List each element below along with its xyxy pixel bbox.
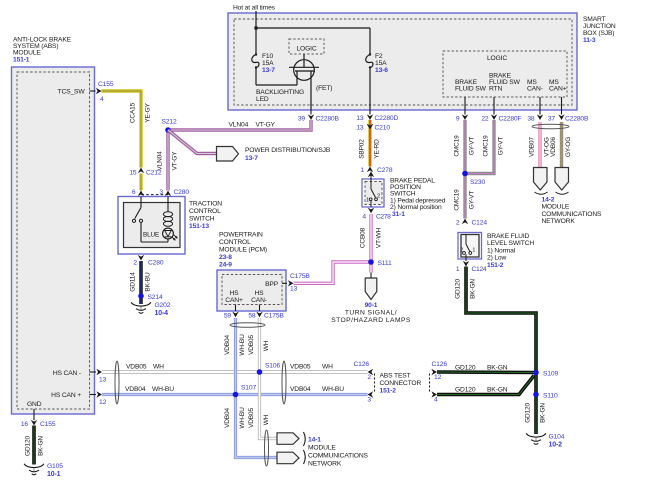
svg-text:COMMUNICATIONS: COMMUNICATIONS (308, 453, 369, 460)
svg-text:BRAKE FLUID: BRAKE FLUID (487, 233, 530, 240)
svg-text:GD120: GD120 (455, 279, 462, 299)
svg-text:GY-VT: GY-VT (469, 137, 476, 156)
svg-text:GD114: GD114 (130, 272, 137, 292)
svg-text:C124: C124 (472, 220, 488, 227)
svg-text:C155: C155 (40, 421, 56, 428)
svg-text:13: 13 (356, 125, 364, 132)
svg-text:S214: S214 (148, 294, 163, 301)
svg-text:GY-OG: GY-OG (565, 137, 572, 157)
svg-text:C175B: C175B (264, 313, 284, 320)
svg-text:2: 2 (460, 248, 463, 254)
svg-text:CONNECTOR: CONNECTOR (380, 380, 422, 387)
svg-text:151-2: 151-2 (380, 388, 397, 395)
svg-text:SBP02: SBP02 (359, 139, 366, 159)
svg-text:F2: F2 (375, 53, 383, 60)
svg-text:VT-GY: VT-GY (256, 121, 276, 128)
svg-text:G202: G202 (155, 302, 171, 309)
svg-text:13: 13 (290, 286, 298, 293)
svg-text:VT-WH: VT-WH (376, 227, 383, 248)
svg-text:JUNCTION: JUNCTION (583, 23, 616, 30)
svg-text:LED: LED (256, 96, 269, 103)
svg-text:VDB04: VDB04 (290, 386, 311, 393)
svg-text:GY-VT: GY-VT (498, 137, 505, 156)
svg-text:1: 1 (472, 248, 475, 254)
svg-text:1: 1 (360, 167, 364, 174)
svg-text:13: 13 (356, 115, 364, 122)
svg-text:9: 9 (456, 116, 460, 123)
svg-text:F10: F10 (262, 53, 274, 60)
svg-text:2: 2 (377, 194, 380, 200)
svg-text:BK-GN: BK-GN (540, 403, 547, 423)
svg-text:YE-RD: YE-RD (374, 139, 381, 159)
svg-text:NETWORK: NETWORK (542, 218, 576, 225)
svg-text:HS CAN +: HS CAN + (51, 392, 81, 399)
svg-text:HS: HS (230, 290, 240, 297)
svg-text:C175B: C175B (290, 273, 310, 280)
svg-text:STOP/HAZARD LAMPS: STOP/HAZARD LAMPS (331, 317, 411, 324)
svg-text:S106: S106 (265, 363, 280, 370)
svg-text:CMC19: CMC19 (483, 135, 490, 157)
svg-text:MODULE: MODULE (308, 445, 336, 452)
svg-text:NETWORK: NETWORK (308, 461, 342, 468)
svg-text:C210: C210 (375, 125, 391, 132)
svg-text:14-2: 14-2 (542, 197, 555, 204)
svg-text:MODULE: MODULE (542, 204, 570, 211)
svg-text:CCB08: CCB08 (360, 227, 367, 248)
svg-text:CMC19: CMC19 (454, 135, 461, 157)
svg-text:59: 59 (224, 313, 232, 320)
svg-text:C124: C124 (472, 266, 487, 273)
svg-text:10-4: 10-4 (155, 310, 169, 317)
svg-text:S230: S230 (470, 179, 485, 186)
svg-text:COMMUNICATIONS: COMMUNICATIONS (542, 211, 603, 218)
svg-text:GD120: GD120 (455, 387, 476, 394)
svg-text:3: 3 (367, 397, 371, 404)
svg-text:4: 4 (362, 213, 366, 220)
svg-text:TCS_SW: TCS_SW (58, 88, 86, 95)
svg-text:C278: C278 (376, 213, 391, 220)
svg-text:2: 2 (456, 220, 460, 227)
svg-text:SMART: SMART (583, 16, 606, 23)
svg-text:BOX (SJB): BOX (SJB) (583, 30, 614, 37)
svg-text:C2280B: C2280B (316, 116, 340, 123)
svg-text:CAN-: CAN- (251, 297, 267, 304)
svg-text:39: 39 (298, 116, 306, 123)
svg-text:TRACTION: TRACTION (189, 201, 222, 208)
svg-text:BPP: BPP (265, 281, 279, 288)
svg-text:C126: C126 (432, 361, 448, 368)
svg-text:37: 37 (548, 116, 556, 123)
svg-text:VDB05: VDB05 (290, 364, 311, 371)
svg-text:GD120: GD120 (525, 403, 532, 423)
svg-text:C155: C155 (98, 81, 114, 88)
svg-text:CAN+: CAN+ (549, 86, 567, 93)
svg-text:15A: 15A (375, 60, 387, 67)
svg-text:151-13: 151-13 (189, 223, 209, 230)
svg-text:1: 1 (366, 198, 369, 204)
svg-text:16: 16 (21, 421, 29, 428)
svg-text:6: 6 (132, 189, 136, 196)
svg-text:C2280B: C2280B (565, 116, 589, 123)
svg-text:WH-BU: WH-BU (322, 386, 344, 393)
svg-text:10-2: 10-2 (549, 441, 563, 448)
svg-text:GD120: GD120 (25, 436, 32, 456)
svg-text:15: 15 (129, 170, 137, 177)
svg-text:S111: S111 (378, 260, 392, 267)
svg-text:VDB05: VDB05 (248, 335, 255, 355)
svg-text:VDB04: VDB04 (224, 408, 231, 428)
svg-text:VDB05: VDB05 (248, 408, 255, 428)
svg-text:C280: C280 (174, 189, 190, 196)
svg-text:22: 22 (481, 116, 489, 123)
svg-text:2: 2 (133, 260, 137, 267)
svg-text:WH-BU: WH-BU (152, 386, 174, 393)
svg-text:S109: S109 (543, 371, 558, 378)
svg-text:13-7: 13-7 (245, 155, 258, 162)
svg-text:MODULE: MODULE (13, 50, 41, 57)
svg-text:RTN: RTN (489, 86, 502, 93)
svg-text:VDB04: VDB04 (224, 335, 231, 355)
svg-text:31-1: 31-1 (392, 211, 405, 218)
svg-text:90-1: 90-1 (365, 302, 378, 309)
svg-text:C280: C280 (148, 260, 164, 267)
svg-text:HS: HS (255, 290, 265, 297)
svg-text:151-2: 151-2 (487, 262, 504, 269)
svg-text:VDB05: VDB05 (126, 364, 147, 371)
svg-text:15A: 15A (262, 60, 274, 67)
svg-text:SWITCH: SWITCH (189, 216, 215, 223)
svg-text:MODULE (PCM): MODULE (PCM) (219, 247, 267, 254)
svg-text:S212: S212 (162, 119, 177, 126)
svg-text:12: 12 (434, 374, 442, 381)
svg-text:2) Low: 2) Low (487, 255, 506, 262)
svg-text:C278: C278 (377, 167, 393, 174)
svg-text:151-1: 151-1 (13, 57, 30, 64)
svg-text:VDB04: VDB04 (125, 386, 146, 393)
svg-text:11-3: 11-3 (583, 37, 596, 44)
svg-text:VLN04: VLN04 (157, 151, 164, 171)
svg-text:POWERTRAIN: POWERTRAIN (219, 232, 263, 239)
svg-text:VLN04: VLN04 (229, 121, 249, 128)
svg-text:23-8: 23-8 (219, 254, 232, 261)
svg-text:14-1: 14-1 (308, 437, 321, 444)
svg-text:38: 38 (527, 116, 535, 123)
svg-text:2: 2 (367, 374, 371, 381)
svg-text:BLUE: BLUE (143, 232, 159, 239)
svg-text:CONTROL: CONTROL (219, 239, 251, 246)
svg-text:LOGIC: LOGIC (487, 55, 507, 62)
svg-text:CAN-: CAN- (527, 86, 543, 93)
svg-text:GY-VT: GY-VT (469, 191, 476, 210)
svg-text:4: 4 (100, 96, 104, 103)
svg-text:WH: WH (263, 414, 270, 425)
svg-text:S110: S110 (543, 393, 558, 400)
svg-text:VDB06: VDB06 (550, 137, 557, 157)
svg-text:GD120: GD120 (455, 365, 476, 372)
svg-text:WH-BU: WH-BU (239, 334, 246, 356)
svg-text:58: 58 (248, 313, 256, 320)
svg-text:WH: WH (153, 364, 164, 371)
svg-text:BK-BU: BK-BU (145, 272, 152, 292)
svg-text:CONTROL: CONTROL (189, 208, 221, 215)
svg-text:WH: WH (263, 340, 270, 351)
svg-text:4: 4 (434, 397, 438, 404)
svg-text:WH-BU: WH-BU (239, 407, 246, 429)
svg-text:LEVEL SWITCH: LEVEL SWITCH (487, 240, 534, 247)
svg-text:C126: C126 (354, 361, 370, 368)
svg-text:BK-GN: BK-GN (487, 387, 508, 394)
svg-text:BK-GN: BK-GN (38, 436, 45, 456)
svg-text:C2280F: C2280F (499, 116, 522, 123)
svg-text:HS CAN -: HS CAN - (53, 370, 81, 377)
svg-text:10-1: 10-1 (47, 471, 61, 478)
svg-text:G104: G104 (549, 434, 565, 441)
svg-text:BK-GN: BK-GN (487, 365, 508, 372)
svg-text:C2280D: C2280D (375, 115, 399, 122)
svg-text:13-6: 13-6 (375, 67, 388, 74)
svg-text:CCA15: CCA15 (130, 102, 137, 123)
svg-text:POWER DISTRIBUTION/SJB: POWER DISTRIBUTION/SJB (245, 147, 331, 154)
svg-text:1: 1 (456, 266, 460, 273)
svg-text:(FET): (FET) (316, 85, 332, 92)
svg-text:WH: WH (322, 364, 333, 371)
svg-text:CAN+: CAN+ (225, 297, 243, 304)
svg-text:GND: GND (27, 401, 42, 408)
svg-text:BK-GN: BK-GN (470, 279, 477, 299)
svg-text:1) Normal: 1) Normal (487, 247, 516, 254)
svg-text:13-7: 13-7 (262, 67, 275, 74)
svg-text:Hot at all times: Hot at all times (233, 5, 276, 12)
svg-text:TURN SIGNAL/: TURN SIGNAL/ (345, 310, 397, 317)
svg-text:ABS TEST: ABS TEST (380, 373, 411, 380)
svg-text:24-9: 24-9 (219, 262, 232, 269)
svg-text:CMC19: CMC19 (454, 189, 461, 211)
svg-text:12: 12 (99, 399, 107, 406)
svg-text:YE-GY: YE-GY (145, 102, 152, 122)
svg-text:VDB07: VDB07 (529, 137, 536, 157)
svg-text:S107: S107 (241, 385, 256, 392)
svg-text:FLUID SW: FLUID SW (455, 86, 487, 93)
svg-text:13: 13 (99, 377, 107, 384)
svg-text:VT-GY: VT-GY (172, 151, 179, 171)
svg-text:LOGIC: LOGIC (296, 46, 316, 53)
svg-text:BACKLIGHTING: BACKLIGHTING (256, 89, 304, 96)
svg-text:G105: G105 (47, 463, 63, 470)
